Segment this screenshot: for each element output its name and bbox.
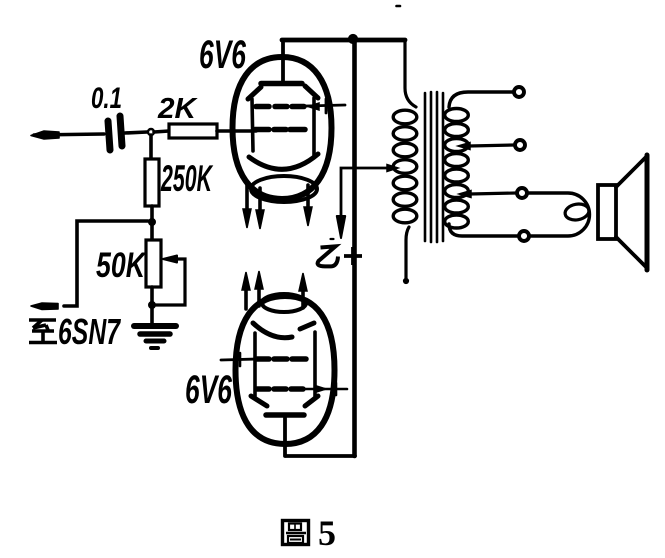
svg-text:6V6: 6V6 [199, 33, 246, 77]
svg-text:5: 5 [318, 513, 336, 553]
svg-text:50K: 50K [96, 246, 147, 285]
svg-text:6V6: 6V6 [185, 368, 232, 412]
svg-text:6SN7: 6SN7 [58, 311, 121, 352]
svg-text:250K: 250K [160, 158, 213, 199]
svg-text:0.1: 0.1 [91, 82, 122, 115]
svg-text:2K: 2K [157, 93, 198, 125]
